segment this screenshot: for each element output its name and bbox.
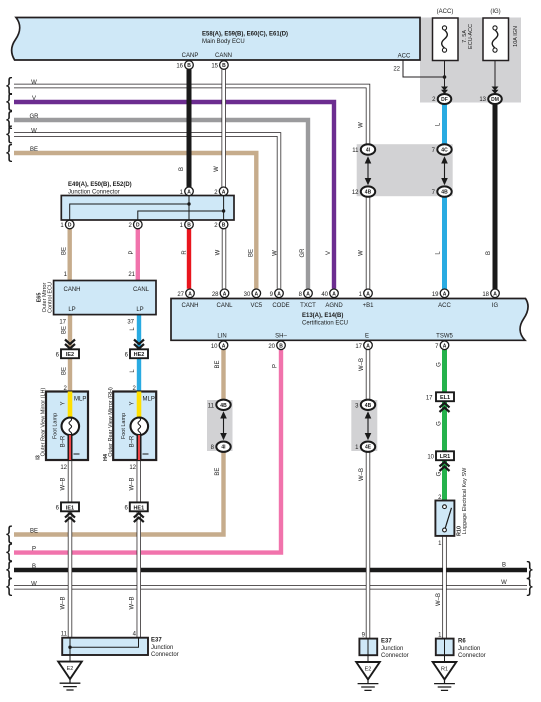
svg-text:Outer Rear View Mirror (LH): Outer Rear View Mirror (LH) [41, 388, 47, 457]
label B to IG [486, 251, 492, 255]
brace BE bus [6, 142, 13, 163]
svg-text:B: B [222, 63, 226, 69]
wire P bus lower (from SH-) [14, 350, 281, 553]
svg-text:13: 13 [479, 97, 486, 103]
svg-text:Connector: Connector [151, 652, 179, 658]
svg-text:11: 11 [352, 148, 359, 154]
ground E2 (middle) [356, 662, 380, 690]
wire IG fuse to DM connector [494, 53, 496, 95]
wire B (black) DM to IG pin 18 [493, 103, 498, 290]
svg-text:B: B [279, 343, 283, 349]
svg-text:BE: BE [62, 367, 68, 375]
svg-text:4B: 4B [365, 190, 372, 196]
svg-text:LR1: LR1 [440, 454, 450, 460]
wire W-B from 4E to E37 mid [366, 451, 370, 639]
svg-text:4E: 4E [365, 445, 372, 451]
svg-text:W: W [31, 581, 37, 587]
svg-text:BE: BE [215, 468, 221, 476]
label W-B on E lower [359, 468, 365, 481]
svg-text:(ACC): (ACC) [437, 9, 454, 15]
svg-text:}: } [527, 576, 533, 597]
svg-text:Outer Rear View Mirror (RH): Outer Rear View Mirror (RH) [108, 387, 114, 457]
pin 1 (A) +B1 [359, 289, 373, 298]
svg-text:A: A [223, 291, 227, 297]
svg-text:16: 16 [176, 64, 183, 70]
gray shade behind connectors 4B/4I on LIN wire [207, 400, 233, 451]
pin 2 (A) top of E49 [214, 187, 228, 196]
wire BE bus lower (from LIN) [14, 451, 224, 535]
svg-text:B: B [187, 63, 191, 69]
svg-text:Foot Lamp: Foot Lamp [53, 413, 59, 439]
svg-text:B: B [486, 251, 492, 255]
svg-text:15: 15 [211, 64, 218, 70]
fuse ACC 7.5A ECU-ACC [433, 9, 474, 61]
svg-text:W: W [359, 122, 365, 128]
svg-text:4I: 4I [221, 445, 226, 451]
wire BE from E65 LP pin 17 to mirror LH [68, 315, 72, 392]
svg-text:TXCT: TXCT [300, 303, 316, 309]
wire P (pink) junction connector to E65 pin 21 [136, 229, 140, 281]
svg-text:E37: E37 [151, 638, 162, 644]
svg-text:4I: 4I [366, 148, 371, 154]
pin 12 mirror LH [60, 465, 67, 471]
svg-text:G: G [437, 362, 443, 367]
svg-text:B–R: B–R [130, 435, 136, 447]
wire CANP (B, black) from Main Body ECU pin 16 to junction connector [187, 69, 192, 187]
gray shade behind connectors 4B/4E on E wire [351, 400, 377, 451]
svg-text:A: A [443, 343, 447, 349]
pin 1 (D) bottom of E49 [60, 220, 74, 229]
brace W bus lower [6, 576, 13, 597]
svg-text:E37: E37 [381, 639, 392, 645]
brace BE bus lower [6, 523, 13, 544]
label W-B below R10 [436, 593, 442, 606]
svg-text:IE1: IE1 [66, 505, 74, 511]
wire W bus 1 (to +B1) [14, 86, 368, 289]
label P to E65 [129, 250, 135, 254]
svg-text:17: 17 [59, 320, 66, 326]
brace GR bus [6, 109, 13, 130]
svg-text:{: { [6, 576, 13, 597]
label G on TSW5 [437, 362, 443, 367]
node junction dot at ACC fuse output [443, 75, 447, 79]
svg-text:MLP: MLP [143, 397, 155, 403]
pin 22 label [393, 67, 400, 73]
svg-text:B–R: B–R [61, 435, 67, 447]
svg-text:HE1: HE1 [133, 505, 144, 511]
svg-text:A: A [277, 291, 281, 297]
wire Y (yellow) in mirror LH [68, 392, 73, 419]
svg-text:G: G [437, 421, 443, 426]
svg-text:W–B: W–B [359, 358, 365, 371]
label W on CANN [214, 166, 220, 172]
svg-text:IE2: IE2 [66, 352, 74, 358]
svg-text:Junction: Junction [458, 646, 480, 652]
svg-text:A: A [366, 343, 370, 349]
label G between EL1 and LR1 [437, 421, 443, 426]
svg-text:TSW5: TSW5 [436, 334, 453, 340]
wire L (blue) 4B to ACC pin 19 [442, 196, 447, 290]
pin 15 (B) [211, 61, 228, 70]
svg-text:Foot Lamp: Foot Lamp [121, 413, 127, 439]
svg-text:A: A [188, 291, 192, 297]
wire W-B mirror LH to E37 [68, 460, 72, 638]
svg-text:(IG): (IG) [490, 9, 500, 15]
wire G (green) TSW5 pin 7 to R10 [442, 350, 447, 501]
svg-text:E49(A), E50(B), E52(D): E49(A), E50(B), E52(D) [68, 182, 132, 188]
label W bus right [501, 580, 507, 586]
svg-text:18: 18 [482, 292, 489, 298]
svg-text:W: W [31, 80, 37, 86]
svg-text:A: A [366, 291, 370, 297]
certification ECU E13/E14 [171, 299, 528, 341]
wire W-B from E pin 17 to 4B [366, 350, 370, 401]
label W to CANL [216, 249, 222, 255]
wire BE from LIN pin 10 to 4B [221, 350, 225, 401]
label BE bus [30, 147, 38, 153]
pin 20 (B) SH- [268, 341, 285, 350]
arrow into DM [492, 87, 499, 95]
label W to +B1 upper [359, 122, 365, 128]
svg-text:AGND: AGND [325, 303, 343, 309]
svg-text:E13(A), E14(B): E13(A), E14(B) [302, 313, 343, 319]
connector 1 (4E) on E wire [355, 442, 375, 452]
label W bus lower [31, 581, 37, 587]
pin 2 (D) bottom of E49 [128, 220, 142, 229]
wire BE junction connector to E65 pin 1 [67, 229, 71, 281]
label W-B mirror LH upper [61, 477, 67, 490]
brace P bus lower [6, 541, 13, 562]
label V to AGND [326, 251, 332, 255]
wire W (white) junction connector to CANL pin 28 [222, 229, 226, 289]
brace W bus right [527, 576, 533, 597]
wire B bus lower [14, 568, 527, 572]
connector 11 (4I) on W wire [352, 144, 375, 154]
pin 8 (A) TXCT [299, 289, 313, 298]
label BE below IE2 [62, 367, 68, 375]
gray shade behind connectors 4I/4B/4C [357, 144, 453, 196]
label Y mirror LH [61, 401, 67, 405]
brace V bus [6, 91, 13, 112]
svg-text:A: A [443, 291, 447, 297]
svg-text:R: R [182, 250, 188, 255]
connector HE1 with arrow [124, 502, 147, 522]
svg-text:CANH: CANH [63, 287, 80, 293]
svg-text:CANH: CANH [181, 303, 198, 309]
svg-text:21: 21 [128, 272, 135, 278]
svg-text:W–B: W–B [61, 477, 67, 490]
svg-text:W–B: W–B [130, 596, 136, 609]
svg-text:W: W [31, 129, 37, 135]
label L below HE2 [130, 369, 136, 373]
label L to ACC lower [436, 251, 442, 255]
svg-text:B: B [179, 167, 185, 171]
svg-text:W–B: W–B [436, 593, 442, 606]
wire W bus lower [14, 585, 527, 589]
outer rear view mirror RH H4 [103, 386, 156, 461]
label W-B on E upper [359, 358, 365, 371]
label GR to TXCT [300, 248, 306, 258]
label BE on LIN lower [215, 468, 221, 476]
svg-text:Certification ECU: Certification ECU [302, 321, 348, 327]
svg-text:A: A [332, 291, 336, 297]
connector 7 (4B) on L wire [432, 186, 452, 196]
svg-text:Connector: Connector [381, 653, 409, 659]
wire BE bus (to VC5) [14, 153, 256, 289]
label W to CODE [273, 250, 279, 256]
label W-B mirror RH upper [130, 477, 136, 490]
svg-text:LIN: LIN [217, 334, 226, 340]
svg-text:28: 28 [212, 292, 219, 298]
wire GR bus (to TXCT) [14, 120, 308, 289]
svg-text:Control ECU: Control ECU [48, 282, 54, 313]
svg-text:11: 11 [208, 403, 215, 409]
connector DF pin 2 [432, 94, 451, 104]
svg-text:B: B [187, 223, 191, 229]
wire CANN (W, white) from pin 15 to junction connector [221, 69, 225, 187]
svg-text:ECU-ACC: ECU-ACC [468, 24, 474, 49]
svg-text:EL1: EL1 [440, 395, 450, 401]
label B-R mirror RH [130, 435, 136, 447]
pin 18 (A) IG [482, 289, 499, 298]
svg-text:12: 12 [129, 465, 136, 471]
svg-text:A: A [187, 189, 191, 195]
connector LR1 with arrow [427, 451, 454, 471]
svg-text:BE: BE [30, 147, 38, 153]
svg-text:Junction: Junction [381, 646, 403, 652]
wire link 4I to 4B with arrows [365, 156, 372, 185]
wire link 4B to 4I with arrows [220, 411, 227, 440]
svg-text:10A IGN: 10A IGN [513, 26, 519, 47]
svg-text:CODE: CODE [272, 303, 289, 309]
svg-text:27: 27 [177, 292, 184, 298]
svg-text:Y: Y [61, 401, 67, 405]
pin 17 (A) E [355, 341, 372, 350]
label B bus right [502, 563, 506, 569]
label L above HE2 [130, 327, 136, 331]
svg-text:Y: Y [130, 401, 136, 405]
svg-text:DF: DF [441, 97, 448, 103]
svg-text:CANL: CANL [216, 303, 233, 309]
label BE on LIN upper [215, 360, 221, 368]
wire B-R in mirror LH [70, 435, 80, 460]
svg-text:B: B [222, 223, 226, 229]
svg-text:BE: BE [30, 529, 38, 535]
pin 7 (A) TSW5 [435, 341, 449, 350]
foot lamp LH [62, 418, 80, 436]
svg-text:19: 19 [432, 292, 439, 298]
svg-text:W–B: W–B [359, 468, 365, 481]
pin 16 (B) [176, 61, 193, 70]
connector EL1 with arrow [426, 392, 454, 412]
label V bus [32, 96, 36, 102]
svg-text:D: D [136, 223, 140, 229]
svg-text:17: 17 [426, 396, 433, 402]
label B-R mirror LH [61, 435, 67, 447]
svg-text:LP: LP [136, 307, 143, 313]
label W-B mirror LH lower [61, 596, 67, 609]
brace B bus lower [6, 559, 13, 580]
svg-text:Main Body ECU: Main Body ECU [202, 39, 245, 45]
wire L (blue) from E65 LP pin 37 to mirror RH [137, 315, 141, 392]
ground E2 (left) [58, 662, 82, 690]
brace W bus 1 [6, 75, 13, 96]
brace W bus 2 [6, 123, 13, 144]
svg-text:W: W [273, 250, 279, 256]
ground R1 [433, 662, 457, 690]
connector 3 (4B) on E wire [355, 400, 375, 410]
arrow into DF [441, 87, 448, 95]
pin 1 (A) top of E49 [180, 187, 194, 196]
svg-text:BE: BE [249, 249, 255, 257]
svg-text:R6: R6 [458, 639, 466, 645]
svg-text:R1: R1 [441, 666, 448, 672]
pin 30 (A) VC5 [244, 289, 261, 298]
outer rear view mirror LH I3 [36, 386, 89, 460]
svg-text:P: P [32, 547, 36, 553]
svg-text:W: W [214, 166, 220, 172]
svg-text:SH–: SH– [275, 334, 287, 340]
wire ACC fuse to DF connector [444, 53, 446, 95]
label BE to E65 [62, 247, 68, 255]
svg-text:A: A [222, 189, 226, 195]
pin 1 (B) bottom of E49 [180, 220, 194, 229]
connector 8 (4I) on LIN wire [211, 442, 231, 452]
pin 12 mirror RH [129, 465, 136, 471]
svg-text:V: V [326, 251, 332, 255]
svg-text:12: 12 [60, 465, 67, 471]
svg-text:VC5: VC5 [250, 303, 262, 309]
svg-text:4B: 4B [365, 403, 372, 409]
fuse IG 10A IGN [483, 9, 519, 61]
svg-text:W: W [216, 249, 222, 255]
svg-text:W–B: W–B [130, 477, 136, 490]
luggage electrical key switch R10 [435, 467, 468, 547]
svg-text:10: 10 [427, 455, 434, 461]
foot lamp RH [131, 418, 149, 436]
svg-text:W: W [501, 580, 507, 586]
label B bus lower [32, 564, 36, 570]
connector 12 (4B) on W wire [352, 186, 375, 196]
svg-text:MLP: MLP [74, 397, 86, 403]
junction connector E37 (left) [61, 632, 179, 662]
pin 40 (A) AGND [321, 289, 338, 298]
svg-text:A: A [254, 291, 258, 297]
label B on CANP [179, 167, 185, 171]
svg-text:ACC: ACC [398, 54, 411, 60]
wire link 4C to 4B with arrows [441, 156, 448, 185]
svg-text:W–B: W–B [61, 596, 67, 609]
pin 9 (A) CODE [270, 289, 284, 298]
svg-text:GR: GR [300, 248, 306, 258]
wire V bus (to AGND) [14, 102, 334, 289]
svg-text:4B: 4B [220, 403, 227, 409]
svg-text:V: V [32, 96, 36, 102]
main body ECU E58/E59/E60/E61 [12, 18, 420, 61]
svg-text:{: { [6, 142, 13, 163]
svg-text:Connector: Connector [458, 653, 486, 659]
svg-text:P: P [129, 250, 135, 254]
svg-text:+B1: +B1 [363, 303, 375, 309]
label BE bus lower [30, 529, 38, 535]
svg-text:A: A [493, 291, 497, 297]
gray shade behind ACC/IG fuses [420, 18, 521, 103]
svg-text:E58(A), E59(B), E60(C), E61(D): E58(A), E59(B), E60(C), E61(D) [202, 31, 288, 37]
label W to +B1 lower [359, 250, 365, 256]
svg-text:22: 22 [393, 67, 400, 73]
svg-text:CANP: CANP [182, 53, 199, 59]
outer mirror control ECU E65 [37, 272, 157, 326]
connector HE2 with arrow [125, 340, 148, 359]
wire Y (yellow) in mirror RH [137, 392, 142, 419]
svg-text:30: 30 [244, 292, 251, 298]
label P on SH- [273, 364, 279, 368]
svg-text:20: 20 [268, 344, 275, 350]
svg-text:12: 12 [352, 190, 359, 196]
junction connector E49(A), E50(B), E52(D) [61, 182, 234, 220]
pin 19 (A) ACC [432, 289, 449, 298]
label GR bus [30, 114, 40, 120]
wire link 4B to 4E with arrows [365, 411, 372, 440]
pin 10 (A) LIN [211, 341, 228, 350]
svg-text:11: 11 [61, 632, 68, 638]
pin 28 (A) CANL [212, 289, 229, 298]
wire L (blue) DF to 4C [442, 103, 447, 147]
svg-text:D: D [68, 223, 72, 229]
svg-text:E2: E2 [365, 666, 372, 672]
connector IE1 with arrow [56, 502, 79, 522]
svg-text:4C: 4C [441, 148, 448, 154]
svg-text:BE: BE [215, 360, 221, 368]
connector DM pin 13 [479, 94, 501, 104]
svg-text:17: 17 [355, 344, 362, 350]
pin 2 (B) bottom of E49 [214, 220, 228, 229]
label R to CANH [182, 250, 188, 255]
svg-text:A: A [222, 343, 226, 349]
svg-text:BE: BE [62, 326, 68, 334]
svg-text:LP: LP [68, 307, 75, 313]
svg-text:4B: 4B [441, 190, 448, 196]
label L to ACC upper [436, 122, 442, 126]
svg-text:BE: BE [62, 247, 68, 255]
label W-B mirror RH lower [130, 596, 136, 609]
wire ACC pin 22 lead [403, 60, 444, 77]
svg-text:HE2: HE2 [134, 352, 145, 358]
wire R (red) junction connector to CANH pin 27 [187, 229, 191, 289]
svg-text:P: P [273, 364, 279, 368]
wire B-R in mirror RH [139, 435, 149, 460]
connector IE2 with arrow [56, 340, 79, 359]
svg-text:Junction: Junction [151, 645, 173, 651]
svg-text:G: G [437, 471, 443, 476]
svg-text:10: 10 [211, 344, 218, 350]
svg-text:CANN: CANN [215, 53, 232, 59]
label P bus lower [32, 547, 36, 553]
label Y mirror RH [130, 401, 136, 405]
label BE to VC5 [249, 249, 255, 257]
brace B bus right [527, 559, 533, 580]
junction connector E37 (middle) [359, 632, 408, 662]
svg-text:ACC: ACC [438, 303, 451, 309]
label BE above IE2 [62, 326, 68, 334]
label W bus 1 [31, 80, 37, 86]
connector 7 (4C) on L wire [432, 144, 452, 154]
svg-text:DM: DM [491, 97, 499, 103]
connector 11 (4B) on LIN wire [208, 400, 231, 410]
svg-text:CANL: CANL [133, 287, 150, 293]
svg-text:IG: IG [492, 303, 499, 309]
svg-text:37: 37 [127, 320, 134, 326]
